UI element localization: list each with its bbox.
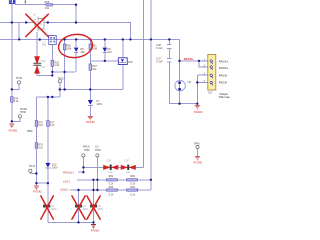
wire TP41 link bbox=[30, 172, 36, 173]
svg-text:R68: R68 bbox=[45, 1, 50, 4]
svg-text:5.1k: 5.1k bbox=[38, 146, 43, 149]
svg-text:5.1k: 5.1k bbox=[38, 124, 43, 127]
node PACK+ x179.8 bbox=[178, 60, 180, 62]
svg-text:J15: J15 bbox=[208, 91, 213, 94]
wire FET3 column x93.5 bbox=[93, 180, 95, 223]
resistor R62 bbox=[51, 60, 60, 67]
capacitor C57 (red crossed bowtie) bbox=[121, 159, 136, 174]
test point TP40 with LD label bbox=[95, 146, 102, 157]
red X over Q6 bbox=[87, 196, 100, 219]
node rail183 x47.9 bbox=[47, 182, 49, 184]
node bus x18.9 bbox=[18, 38, 20, 40]
wire TP32 link bbox=[12, 84, 19, 89]
resistor R83 bbox=[107, 186, 118, 196]
node TP33 x59.8 bbox=[59, 88, 61, 90]
svg-text:100V: 100V bbox=[96, 103, 102, 106]
wire R60 column x64.6 bbox=[64, 39, 66, 89]
node r4 x136.9 bbox=[136, 189, 138, 191]
wire D8 column x76.2 bbox=[75, 39, 77, 72]
svg-text:R83: R83 bbox=[109, 186, 114, 189]
wire main bus y39.4 bbox=[0, 38, 180, 40]
node bus x104.8 bbox=[104, 38, 106, 40]
node bus x76.2 bbox=[75, 38, 77, 40]
node LD rail x94 bbox=[92, 179, 94, 181]
node join y71.9 x64.6 bbox=[63, 71, 65, 73]
wire cap column x169.3 bbox=[168, 39, 170, 103]
diode D10 bbox=[45, 163, 58, 170]
resistor R61 bbox=[89, 44, 97, 50]
node PACK+ x199 bbox=[198, 60, 200, 62]
test point TP41 bbox=[29, 165, 36, 172]
svg-text:16V: 16V bbox=[107, 51, 112, 54]
svg-text:100V: 100V bbox=[52, 167, 58, 170]
node gate rail x26.2 bbox=[25, 21, 27, 23]
svg-text:16V: 16V bbox=[80, 51, 85, 54]
node rail97 x52.3 bbox=[51, 96, 53, 98]
node gate rail x11.8 bbox=[11, 21, 13, 23]
resistor R67 bbox=[89, 64, 97, 71]
wire red-cap rail y167.4 bbox=[83, 166, 143, 168]
zener D9 bbox=[103, 48, 113, 54]
wire PGND rail y103.7 bbox=[169, 103, 197, 105]
wire left vertical x11.8 bbox=[11, 4, 13, 122]
svg-text:7 6: 7 6 bbox=[44, 34, 48, 37]
test point TP33 bbox=[58, 78, 65, 83]
pin tick mark bbox=[25, 0, 26, 3]
svg-text:1.0k: 1.0k bbox=[54, 64, 59, 67]
svg-text:0.1uF: 0.1uF bbox=[156, 61, 163, 64]
node TP41 x36.4 bbox=[35, 172, 37, 174]
wire bottom rail y222.4 bbox=[48, 221, 94, 223]
wire PGND stub x11.8 bbox=[11, 121, 13, 123]
wire FET1 source column x37.8 bbox=[36, 32, 38, 75]
wire ground stub x93.5 bbox=[93, 222, 95, 224]
test point TP43 with ground bbox=[193, 143, 203, 165]
svg-text:PACK+: PACK+ bbox=[219, 60, 229, 64]
node TP39 x83.4 bbox=[82, 166, 84, 168]
svg-text:TP39: TP39 bbox=[84, 149, 91, 152]
wire TP38 link bbox=[12, 118, 20, 121]
svg-text:C49: C49 bbox=[41, 60, 46, 63]
svg-text:PGND: PGND bbox=[193, 161, 203, 165]
node bus x64.6 bbox=[63, 38, 65, 40]
node bus x122.8 bbox=[122, 38, 124, 40]
svg-text:TP43: TP43 bbox=[194, 143, 201, 146]
resistor R77 bbox=[47, 121, 56, 128]
svg-text:C57: C57 bbox=[125, 159, 130, 162]
ground PGND (left column) bbox=[9, 124, 19, 132]
svg-text:5 8: 5 8 bbox=[42, 44, 46, 47]
diode D7 bbox=[88, 100, 103, 106]
wire LD(-) rail y179.8 bbox=[77, 179, 151, 181]
svg-text:PACK-: PACK- bbox=[219, 74, 228, 78]
svg-text:PACK-: PACK- bbox=[219, 81, 228, 85]
wire left resistor column x36.4 bbox=[35, 97, 37, 183]
wire R62 column x52.3 bbox=[51, 45, 53, 76]
wire x76 vertical bbox=[75, 5, 77, 23]
wire PACK(-) stub y172.2 bbox=[78, 171, 83, 173]
wire bus corner down to PACK+ rail bbox=[179, 39, 181, 61]
svg-text:PGND: PGND bbox=[33, 190, 43, 194]
resistor R60 bbox=[63, 44, 71, 50]
node r4 x94 bbox=[92, 189, 94, 191]
svg-text:TP33: TP33 bbox=[58, 78, 65, 81]
wire long vertical x143.4 bbox=[142, 0, 144, 167]
resistor R82 bbox=[127, 175, 138, 186]
ground PGND (bottom) bbox=[91, 225, 101, 233]
transistor Q4 (crossed out, grayed, bottom left) bbox=[43, 205, 57, 211]
svg-text:1uF: 1uF bbox=[108, 171, 113, 174]
node pin34 x197.3 bbox=[196, 81, 198, 83]
node rail97 x47.9 bbox=[47, 96, 49, 98]
wire DSG rail y89.5 bbox=[60, 89, 123, 91]
connector J3 bbox=[208, 55, 216, 95]
resistor R75 bbox=[35, 121, 44, 128]
svg-text:PACK+: PACK+ bbox=[184, 57, 194, 61]
wire PGND stub x36.4 bbox=[35, 183, 37, 186]
svg-text:5.1k: 5.1k bbox=[130, 194, 135, 197]
svg-text:PACK+: PACK+ bbox=[219, 66, 229, 70]
wire R61 column x90.3 bbox=[89, 39, 91, 61]
ground PGND (below D7) bbox=[86, 116, 96, 124]
svg-text:TP41: TP41 bbox=[29, 165, 36, 168]
node TP38 x11.8 bbox=[11, 120, 13, 122]
svg-text:10M: 10M bbox=[92, 47, 97, 50]
red ellipse annotation bbox=[57, 33, 94, 60]
svg-text:5.1k: 5.1k bbox=[109, 183, 114, 186]
wire rail y97 bbox=[36, 96, 59, 98]
red X over Q5 bbox=[72, 196, 85, 219]
svg-text:1uF: 1uF bbox=[126, 171, 131, 174]
diode D15 box bbox=[118, 58, 133, 65]
svg-text:PGND: PGND bbox=[9, 128, 19, 132]
resistor R81 bbox=[107, 175, 118, 186]
svg-text:100V: 100V bbox=[82, 208, 88, 211]
wire x19.2 vertical to bus bbox=[18, 23, 20, 40]
svg-text:5.1k: 5.1k bbox=[130, 183, 135, 186]
wire pair join y71.9 bbox=[52, 71, 75, 73]
ground PGND (right PACK- rail) bbox=[194, 106, 204, 114]
svg-text:LD: LD bbox=[188, 81, 191, 84]
svg-text:5.1k: 5.1k bbox=[50, 124, 55, 127]
node r4 x77.6 bbox=[77, 189, 79, 191]
transistor Q7 (crossed out, grayed) bbox=[30, 14, 46, 32]
capacitor C56 (red crossed bowtie) bbox=[103, 159, 118, 174]
transistor Q5 (crossed out, grayed) bbox=[75, 205, 89, 211]
svg-text:3.0k: 3.0k bbox=[45, 7, 50, 10]
wire long vertical x150.9 bbox=[150, 0, 152, 190]
node PGND rail x179.8 bbox=[178, 103, 180, 105]
node TP32 x11.8 bbox=[11, 88, 13, 90]
ground PGND (rail 183) bbox=[33, 186, 43, 194]
fuse F1 top-left box bbox=[9, 0, 15, 4]
svg-text:5.1k: 5.1k bbox=[109, 194, 114, 197]
node bus x169.3 bbox=[168, 38, 170, 40]
wire rail y60.9 bbox=[90, 60, 118, 62]
node DSG rail x64.6 bbox=[63, 88, 65, 90]
svg-text:R81: R81 bbox=[109, 175, 114, 178]
node r3 x150.9 bbox=[150, 179, 152, 181]
svg-text:0.1uF: 0.1uF bbox=[156, 47, 163, 50]
svg-text:100V: 100V bbox=[97, 208, 103, 211]
node DSG rail x90.3 bbox=[89, 88, 91, 90]
transistor Q6 (crossed out, grayed) bbox=[90, 205, 104, 211]
wire PACK+ rail y60.9 to pin1 bbox=[180, 60, 208, 62]
node rail183 x36.4 bbox=[35, 182, 37, 184]
wire TP33 column x59.8 bbox=[59, 83, 61, 97]
test point TP32 bbox=[16, 77, 23, 84]
svg-text:70A max: 70A max bbox=[219, 95, 231, 99]
svg-text:5.1k: 5.1k bbox=[14, 100, 19, 103]
wire LD rail y190 bbox=[70, 189, 151, 191]
wire TP39 stem bbox=[82, 157, 84, 172]
node bus x90.3 bbox=[89, 38, 91, 40]
capacitor C37 bbox=[156, 58, 171, 64]
test point TP39 with PACK label bbox=[82, 146, 90, 157]
node bottom rail x77.6 bbox=[77, 221, 79, 223]
svg-text:TP32: TP32 bbox=[16, 77, 23, 80]
wire load column x179.8 bbox=[179, 61, 181, 104]
wire pin2 jumper bbox=[199, 61, 208, 67]
svg-text:PACK(-): PACK(-) bbox=[63, 171, 74, 175]
wire R77-D10 column x47.9 bbox=[47, 97, 49, 205]
wire pin34 down to PGND rail bbox=[196, 83, 198, 104]
svg-text:C56: C56 bbox=[107, 159, 112, 162]
load LD1 circle bbox=[175, 81, 191, 91]
svg-text:100V: 100V bbox=[51, 208, 57, 211]
node top rail x76 bbox=[75, 3, 77, 5]
svg-text:TP38: TP38 bbox=[20, 111, 27, 114]
svg-text:D15: D15 bbox=[128, 61, 133, 64]
red X over Q7 bbox=[26, 14, 49, 36]
svg-text:LD(-): LD(-) bbox=[63, 179, 70, 183]
svg-text:LD(C): LD(C) bbox=[60, 188, 68, 192]
node join y71.9 x52.3 bbox=[51, 71, 53, 73]
node r4 x97.4 bbox=[96, 189, 98, 191]
red X over Q4 bbox=[41, 196, 54, 219]
node bus x130.4 bbox=[129, 38, 131, 40]
wire pin3 lead bbox=[197, 74, 208, 76]
wire TP41-PGND rail y183.2 bbox=[36, 182, 48, 184]
svg-text:PGND: PGND bbox=[194, 110, 204, 114]
wire TP40 stem bbox=[96, 157, 98, 190]
svg-text:R82: R82 bbox=[130, 175, 135, 178]
svg-text:R84: R84 bbox=[130, 186, 135, 189]
svg-text:DSG: DSG bbox=[27, 130, 32, 133]
resistor R68 (top rail) bbox=[45, 1, 53, 10]
red X over C49 (solid bowtie) bbox=[34, 56, 40, 73]
node bottom rail x94 bbox=[92, 221, 94, 223]
wire top rail y4.7 bbox=[15, 4, 76, 6]
node gate rail x76 bbox=[75, 21, 77, 23]
wire R67-D7 column x90.3 bbox=[89, 61, 91, 116]
svg-text:PGND: PGND bbox=[91, 229, 101, 233]
capacitor C38 bbox=[156, 44, 171, 50]
resistor R84 bbox=[127, 186, 138, 196]
wire y75.4 link bbox=[37, 74, 52, 76]
node y75.4 x52.3 bbox=[51, 74, 53, 76]
zener D8 bbox=[74, 48, 85, 54]
resistor R74 bbox=[11, 97, 20, 104]
svg-text:10M: 10M bbox=[66, 47, 71, 50]
node bus x150.9 bbox=[150, 38, 152, 40]
capacitor C49 (crossed out, grayed) bbox=[33, 60, 46, 69]
node bus x39 bbox=[39, 38, 41, 40]
node PGND rail x197.3 bbox=[196, 103, 198, 105]
wire pin4 lead and jumper bbox=[197, 75, 208, 82]
wire corner FET1b to bottom rail bbox=[47, 207, 49, 222]
resistor R76 bbox=[35, 143, 44, 150]
node LD rail x97.4 bbox=[96, 179, 98, 181]
wire D9 column x104.8 bbox=[104, 39, 106, 61]
transistor Q8 bbox=[42, 34, 56, 47]
test point TP38 with PGSD label bbox=[18, 108, 27, 118]
node gate rail x47.8 bbox=[47, 21, 49, 23]
node rail60.9 x104.8 bbox=[104, 60, 106, 62]
wire FET2 column x78.5 bbox=[78, 190, 80, 222]
wire gate rail y22.5 right bbox=[44, 22, 76, 24]
wire gate rail y22.5 left bbox=[0, 22, 30, 24]
svg-text:1uF: 1uF bbox=[41, 66, 46, 69]
svg-text:TP40: TP40 bbox=[95, 149, 102, 152]
node PACKm x83.4 bbox=[82, 171, 84, 173]
wire D15 column x122.8 bbox=[122, 39, 124, 89]
svg-text:PGND: PGND bbox=[86, 120, 96, 124]
wire y22.5 to x130.4 drop bbox=[76, 23, 130, 40]
